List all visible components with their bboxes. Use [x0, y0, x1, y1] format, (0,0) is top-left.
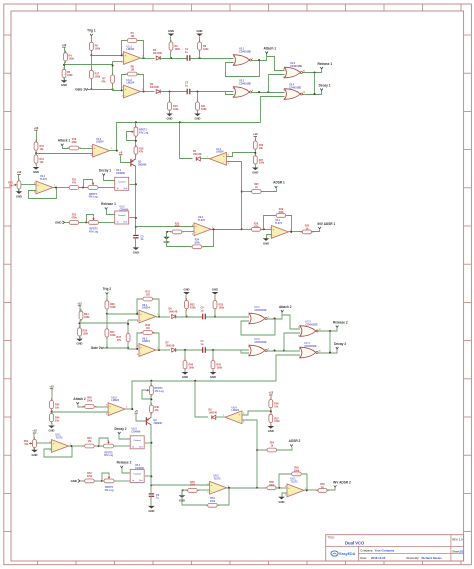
svg-text:-: -: [195, 232, 196, 235]
resistor R17 100k: [90, 68, 101, 81]
svg-text:100k: 100k: [194, 242, 200, 245]
wire C5 to ground: [135, 238, 137, 248]
svg-text:-: -: [140, 319, 141, 322]
net flag Release 2: [333, 320, 348, 327]
svg-text:ADSR 2: ADSR 2: [289, 439, 301, 443]
svg-text:1N4148: 1N4148: [153, 52, 162, 55]
power flag +12 (right divider): [253, 132, 258, 140]
node ADSR tap: [256, 449, 258, 451]
wire R40 lead: [184, 350, 186, 361]
svg-text:100k: 100k: [190, 484, 196, 487]
wire box1 out: [145, 442, 151, 444]
op-amp U9.1 TL072 (inverter): [285, 477, 306, 496]
node ADSR out column: [241, 228, 243, 230]
svg-text:47k Log: 47k Log: [104, 454, 114, 457]
node Trig: [106, 313, 108, 315]
resistor R57 100k: [269, 412, 280, 425]
wire +5 to Q base: [136, 414, 146, 421]
wire opamp1 output: [141, 58, 155, 60]
svg-text:GND: GND: [212, 288, 218, 292]
wire latch feedback U2.1: [241, 319, 275, 335]
net flag Attack 2 (input): [73, 397, 86, 404]
wire pot bottom to R18: [150, 395, 152, 405]
svg-text:100k: 100k: [110, 334, 116, 337]
wire R2 to row1: [170, 52, 172, 59]
ground (below R40): [182, 370, 189, 379]
NOR gate U2.4 CD4001BE: [284, 84, 305, 101]
wire D2 to cap C2: [176, 349, 202, 351]
node right divider: [254, 152, 256, 154]
svg-text:TITLE:: TITLE:: [328, 537, 335, 539]
wire pot top lead: [150, 381, 152, 386]
wire divider to R37: [127, 320, 129, 333]
node cross couple: [283, 350, 285, 352]
svg-text:Drawn By:: Drawn By:: [407, 556, 420, 560]
node U3.1 output: [71, 445, 73, 447]
node buffer tap: [150, 484, 152, 486]
svg-text:+12: +12: [253, 132, 258, 136]
node release pot left: [101, 480, 103, 482]
resistor R6 100k: [90, 40, 101, 53]
svg-text:GND: GND: [148, 509, 154, 513]
resistor R14 10k: [34, 153, 44, 166]
wire U2.4 second input to timing node: [261, 97, 285, 123]
potentiometer RPOT3 47k Log (release): [86, 217, 100, 234]
resistor R46 100k: [83, 397, 97, 409]
svg-text:100k: 100k: [189, 366, 195, 369]
svg-text:2: 2: [208, 492, 209, 494]
diode D5 1N4148: [193, 150, 202, 161]
svg-text:Attach 1: Attach 1: [264, 46, 277, 50]
node box2 out: [150, 475, 152, 477]
svg-text:47k Log: 47k Log: [104, 489, 114, 492]
wire release pot bypass loop: [87, 215, 94, 223]
net flag Attach 1: [264, 46, 277, 53]
svg-text:GND: GND: [55, 221, 61, 225]
resistor R38 1M (feedback): [141, 324, 155, 334]
node inverter output: [306, 489, 308, 491]
wire timing node to D5: [195, 381, 208, 417]
node Gate: [90, 88, 92, 90]
svg-text:11: 11: [319, 329, 321, 331]
wire inverter +input to gnd: [282, 493, 287, 497]
node decay pot left: [98, 445, 100, 447]
svg-text:12: 12: [283, 68, 285, 70]
op-amp U3.2 TL072: [192, 216, 213, 236]
wire Decay flag to box control: [119, 434, 130, 439]
wire R23 right: [198, 489, 210, 491]
svg-text:Control: Control: [118, 180, 126, 183]
wire R28 to inverter: [261, 229, 272, 231]
svg-text:-: -: [94, 153, 95, 156]
svg-text:CD4001BE: CD4001BE: [255, 309, 267, 312]
wire Gate row: [102, 347, 128, 349]
node Gate: [106, 347, 108, 349]
wire R21 to pot: [80, 187, 88, 189]
svg-text:47k: 47k: [155, 409, 160, 412]
svg-text:2: 2: [233, 65, 234, 67]
wire R22 to release pot: [80, 222, 88, 224]
transistor Q1 2N3906: [131, 159, 147, 167]
svg-text:Out: Out: [139, 445, 143, 448]
svg-text:10k: 10k: [40, 161, 45, 164]
svg-text:CD4001BE: CD4001BE: [239, 51, 251, 54]
svg-text:2N3906: 2N3906: [154, 422, 163, 425]
wire R25 to ADSR flag: [277, 447, 292, 450]
NOR gate U2.3 CD4001BE: [283, 62, 305, 79]
resistor R5 100k: [62, 67, 73, 80]
wire feedback loop R8: [137, 333, 159, 350]
svg-text:Control: Control: [118, 214, 126, 217]
svg-text:1.0: 1.0: [459, 538, 463, 542]
wire box1 out: [130, 184, 136, 186]
svg-text:Decay 1: Decay 1: [319, 83, 331, 87]
ground (below R11): [194, 112, 201, 121]
wire C2 to gate U2.2: [191, 91, 234, 93]
wire R36 to node: [106, 309, 108, 314]
wire U2.2 output row: [267, 350, 300, 352]
resistor R32 100k: [185, 298, 197, 311]
resistor R41 100k: [211, 358, 223, 371]
wire R25 to ADSR flag: [262, 189, 277, 192]
svg-text:2: 2: [34, 192, 35, 194]
svg-text:1M: 1M: [130, 69, 133, 72]
wire attack divider node: [51, 410, 53, 413]
wire box2 out: [145, 475, 151, 477]
wire divider node: [255, 151, 257, 156]
wire R33 to row1: [214, 310, 216, 317]
power flag +12 (offset): [17, 170, 22, 180]
svg-text:GND: GND: [167, 117, 173, 121]
svg-text:100k: 100k: [294, 469, 300, 472]
sheet border ticks: [37, 4, 39, 11]
wire R22 to release pot: [95, 480, 103, 482]
svg-text:100k: 100k: [67, 74, 73, 77]
svg-text:-: -: [288, 493, 289, 496]
power flag +5 (base): [119, 150, 123, 154]
node attack divider: [51, 411, 53, 413]
svg-text:100k: 100k: [274, 420, 280, 423]
node box1 out: [150, 442, 152, 444]
wire U2.3 output to Release: [303, 70, 322, 73]
svg-text:Release 2: Release 2: [333, 320, 348, 324]
power flag +12 (attack): [49, 384, 54, 401]
node opamp2 output: [158, 349, 160, 351]
node attack opamp output: [116, 150, 118, 152]
wire inverter feedback: [264, 216, 292, 232]
node inverter input: [263, 228, 265, 230]
svg-text:CD4001BE: CD4001BE: [305, 345, 317, 348]
wire +5 to Q base: [121, 156, 131, 163]
node buffer -input: [166, 231, 168, 233]
wire U2.4 output to Decay: [303, 91, 322, 95]
node ADSR out column: [256, 487, 258, 489]
svg-text:100k: 100k: [69, 57, 75, 60]
ground (offset trimmer): [31, 447, 38, 457]
svg-text:-: -: [239, 420, 240, 423]
op-amp U8.2 TL072: [208, 474, 229, 494]
diode D8 1N4148: [209, 409, 218, 420]
wire U2.3 output to Release: [318, 328, 337, 331]
wire U2.4 second input to timing node: [276, 355, 300, 381]
wire decay pot bypass loop: [84, 180, 93, 188]
svg-text:13: 13: [298, 336, 300, 338]
trimmer RV2 10k: [24, 437, 37, 449]
svg-text:100k: 100k: [190, 306, 196, 309]
node U2.2 output: [274, 350, 276, 352]
svg-text:CD4001BE: CD4001BE: [239, 83, 251, 86]
svg-text:TL072: TL072: [40, 178, 48, 181]
wire R16 to opamp input: [80, 148, 93, 150]
wire R23 right: [183, 231, 195, 233]
svg-text:1M: 1M: [130, 35, 133, 38]
svg-text:GND: GND: [279, 500, 285, 504]
svg-text:GND: GND: [77, 342, 83, 346]
svg-text:+12: +12: [62, 43, 67, 47]
ground (above R33): [212, 288, 219, 301]
svg-text:-: -: [211, 490, 212, 493]
net flag INV ADSR 2: [333, 481, 351, 488]
svg-text:470k: 470k: [87, 475, 93, 478]
svg-text:-: -: [125, 94, 126, 97]
wire buffer feedback: [182, 488, 229, 505]
svg-text:Date:: Date:: [360, 556, 367, 560]
resistor R23 100k: [170, 222, 184, 234]
svg-text:Trig 1: Trig 1: [87, 29, 96, 33]
wire U2.4 output to Decay: [318, 349, 337, 353]
svg-text:100k: 100k: [210, 500, 216, 503]
diode D2 1N4148: [150, 83, 160, 93]
node U3.1 output: [55, 187, 57, 189]
svg-text:CD4001BE: CD4001BE: [289, 87, 301, 90]
ground (left divider): [61, 80, 68, 87]
svg-text:10: 10: [303, 92, 305, 94]
ground (inverter): [278, 497, 285, 504]
svg-text:1: 1: [142, 89, 143, 91]
node attack divider: [35, 152, 37, 154]
svg-text:-: -: [37, 190, 38, 193]
svg-text:GND: GND: [197, 29, 203, 33]
power flag +12 (attack): [34, 126, 39, 143]
wire latch feedback U2.1: [226, 61, 260, 77]
resistor R11 100k: [196, 100, 208, 113]
resistor R47 100k: [105, 327, 116, 340]
net flag Trig 2: [103, 287, 112, 301]
svg-text:1: 1: [248, 314, 249, 316]
op-amp U8.1 TL072: [50, 434, 71, 453]
resistor R3 100k: [198, 40, 210, 53]
svg-text:8: 8: [299, 348, 300, 350]
resistor R34 100k: [79, 309, 90, 322]
wire U3.1 out to R21: [72, 445, 84, 447]
svg-text:GND: GND: [71, 479, 77, 483]
svg-text:Dual VCO: Dual VCO: [345, 540, 365, 545]
wire Release to Decay junction: [314, 73, 316, 95]
svg-text:2: 2: [248, 323, 249, 325]
svg-text:7: 7: [223, 415, 224, 417]
wire timing node (long): [117, 123, 261, 151]
op-amp U6.3 LM324: [106, 396, 127, 415]
resistor R16 100k: [67, 138, 81, 150]
svg-text:LM324: LM324: [216, 151, 224, 154]
net flag ADSR 1: [273, 181, 285, 188]
node R7 top: [127, 323, 129, 325]
node U2.1 output: [274, 318, 276, 320]
node R10 top: [169, 91, 171, 93]
wire Attack flag to R16: [63, 147, 69, 149]
svg-text:Decay 1: Decay 1: [99, 168, 111, 172]
net flag Decay 1: [319, 83, 331, 90]
svg-text:Decay 2: Decay 2: [334, 342, 346, 346]
svg-text:2: 2: [137, 321, 138, 323]
net flag Decay 1 (control): [99, 168, 111, 175]
svg-text:10: 10: [319, 350, 321, 352]
svg-text:Release 1: Release 1: [317, 62, 332, 66]
svg-text:Richard Davies: Richard Davies: [422, 556, 443, 560]
svg-text:100k: 100k: [219, 306, 225, 309]
wire pot to switch box In: [99, 187, 115, 189]
svg-text:GND: GND: [168, 29, 174, 33]
svg-text:10k: 10k: [274, 405, 279, 408]
node attack opamp output: [131, 408, 133, 410]
svg-text:2: 2: [192, 234, 193, 236]
node R2 bottom: [186, 316, 188, 318]
wire R17 to Gate node: [91, 79, 93, 90]
wire C2 to gate U2.2: [206, 349, 249, 351]
svg-text:47k Log: 47k Log: [88, 196, 98, 199]
svg-text:8: 8: [284, 90, 285, 92]
svg-text:Attack 2: Attack 2: [73, 397, 86, 401]
svg-text:2N3906: 2N3906: [138, 164, 147, 167]
svg-text:100k: 100k: [173, 108, 179, 111]
node opamp2 +input: [121, 89, 123, 91]
wire left divider to R7 column: [65, 64, 113, 66]
svg-text:100k: 100k: [278, 211, 284, 214]
resistor R35 100k: [78, 326, 89, 339]
svg-text:2: 2: [285, 495, 286, 497]
wire R16 to opamp input: [95, 406, 108, 408]
svg-text:+12: +12: [269, 391, 274, 395]
svg-text:47k Log: 47k Log: [89, 231, 99, 234]
svg-text:CD4001BE: CD4001BE: [290, 65, 302, 68]
svg-text:LM324: LM324: [232, 409, 240, 412]
svg-text:13: 13: [283, 77, 285, 79]
ground (below R10): [166, 112, 173, 121]
capacitor C1 (series): [185, 48, 190, 61]
svg-text:3: 3: [34, 183, 35, 185]
svg-text:GND: GND: [252, 171, 258, 175]
diode D7 1N4148: [166, 342, 176, 352]
svg-text:Out: Out: [124, 187, 128, 190]
node decay pot left: [82, 187, 84, 189]
wire R10 lead: [169, 92, 171, 103]
svg-text:TL072: TL072: [291, 480, 299, 483]
op-amp U1.1 LM324: [122, 45, 143, 64]
svg-text:EasyEDA: EasyEDA: [339, 552, 355, 556]
wire R32 to row1: [185, 310, 187, 317]
node R7 top: [112, 65, 114, 67]
svg-text:Out: Out: [139, 479, 143, 482]
resistor R44 10k: [50, 411, 60, 424]
wire buffer output: [211, 229, 242, 231]
label U5.4: [135, 464, 144, 470]
svg-text:2: 2: [106, 413, 107, 415]
op-amp U6.2 LM324: [137, 337, 158, 356]
wire D2 to cap C2: [161, 91, 187, 93]
wire buffer +input: [136, 226, 195, 228]
resistor R29 100k (feedback): [274, 208, 288, 217]
node opamp1 +input: [121, 54, 123, 56]
NOR gate U2.2 CD4001BE: [233, 80, 254, 99]
op-amp U1.2 LM324: [122, 79, 143, 98]
wire trimmer to opamp U3.1: [36, 442, 52, 444]
node R2 bottom: [170, 57, 172, 59]
svg-text:2: 2: [137, 354, 138, 356]
svg-text:+12: +12: [32, 429, 37, 433]
wire R41 lead: [212, 350, 214, 361]
svg-text:Release 2: Release 2: [117, 461, 132, 465]
svg-text:10k: 10k: [40, 148, 45, 151]
svg-text:470k: 470k: [71, 217, 77, 220]
NOR gate U7.3 CD4001BE: [298, 321, 320, 338]
node R10 top: [184, 349, 186, 351]
svg-text:GND: GND: [33, 170, 39, 174]
svg-text:2: 2: [122, 96, 123, 98]
diode D6 1N4148: [169, 308, 178, 319]
wire feedback loop R1: [137, 299, 159, 317]
svg-text:GND: GND: [195, 117, 201, 121]
svg-text:Decay 2: Decay 2: [114, 427, 126, 431]
wire ADSR tap to R25: [242, 191, 252, 193]
svg-text:CD4001BE: CD4001BE: [306, 324, 318, 327]
transistor Q2 2N3906: [146, 417, 162, 425]
NOR gate U7.1 CD4001BE: [248, 306, 268, 325]
node left divider: [79, 322, 81, 324]
wire opamp out to timing loop: [110, 150, 117, 152]
wire D5 to comparator output: [201, 158, 210, 160]
node Release junction: [329, 330, 331, 332]
svg-text:1: 1: [157, 348, 158, 350]
net flag Gate 2: [91, 346, 104, 350]
wire R18 to Q emitter: [135, 155, 137, 159]
node Decay junction: [329, 352, 331, 354]
wire U3.1 out to R21: [57, 187, 69, 189]
op-amp U1.3 LM324: [91, 138, 112, 157]
node R3 bottom: [214, 316, 216, 318]
svg-text:GND: GND: [263, 241, 269, 245]
svg-text:1: 1: [233, 56, 234, 58]
svg-text:100k: 100k: [95, 76, 101, 79]
svg-text:1: 1: [157, 314, 158, 316]
node opamp1 +input: [136, 313, 138, 315]
svg-text:-: -: [125, 60, 126, 63]
svg-text:11: 11: [303, 70, 305, 72]
wire to opamp1 inverting input: [113, 61, 123, 63]
wire C1 to gate U2.1: [206, 316, 249, 318]
svg-text:1u: 1u: [201, 310, 204, 313]
svg-text:LM324: LM324: [96, 141, 104, 144]
svg-text:1N4148: 1N4148: [169, 311, 178, 314]
svg-text:6: 6: [248, 355, 249, 357]
resistor R31 1M (feedback): [141, 291, 155, 301]
svg-text:Control: Control: [134, 473, 142, 476]
svg-text:Attach 2: Attach 2: [279, 305, 292, 309]
wire gnd flag to R22: [65, 222, 69, 224]
svg-text:100k: 100k: [217, 366, 223, 369]
wire timing node (long): [132, 381, 276, 409]
wire inverter output: [289, 231, 303, 233]
ground (below C5): [148, 506, 155, 513]
